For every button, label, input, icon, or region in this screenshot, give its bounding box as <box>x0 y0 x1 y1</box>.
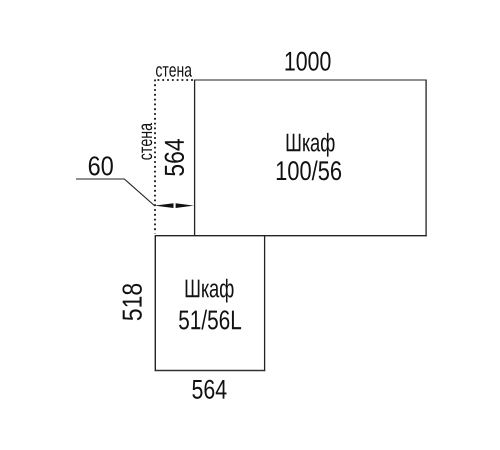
label Шкаф upper <box>287 133 335 157</box>
dimension 1000 <box>286 52 331 71</box>
arrow left <box>155 203 174 208</box>
wall dotted line vertical <box>154 80 156 234</box>
dimension 60 <box>89 156 113 175</box>
wall dotted line horizontal <box>158 79 194 81</box>
dimension 564 rotated <box>165 139 184 176</box>
dimension 564 bottom <box>192 380 226 399</box>
label 100/56 <box>277 160 341 180</box>
label стена horizontal <box>156 66 192 77</box>
cabinet 51/56L left edge <box>154 236 156 371</box>
dimension 518 rotated <box>122 284 141 320</box>
label 51/56L <box>179 310 241 330</box>
cabinet 51/56L bottom edge <box>155 370 266 372</box>
cabinet 100/56 top edge <box>194 79 427 81</box>
cabinet 100/56 right edge <box>425 80 427 237</box>
leader line for dimension 60 <box>76 179 154 205</box>
cabinet 100/56 left edge <box>194 80 196 236</box>
label стена vertical <box>142 123 153 160</box>
cabinet 51/56L right edge <box>264 236 266 371</box>
arrow right <box>176 203 194 208</box>
shared horizontal edge between cabinets <box>155 235 427 237</box>
label Шкаф lower <box>186 279 234 303</box>
